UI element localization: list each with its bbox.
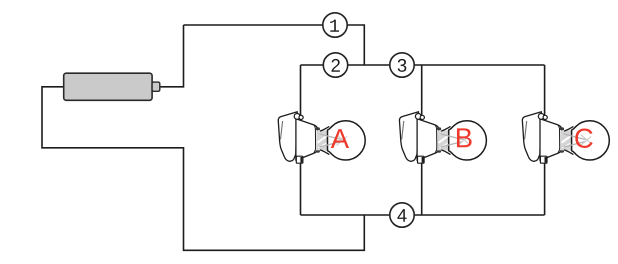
node 2 [323, 53, 347, 77]
lamp A [278, 112, 365, 163]
wire bottom rail through node 4 [301, 214, 545, 216]
lamp B [399, 112, 486, 163]
node 3 [390, 53, 414, 77]
lamp B label [457, 128, 472, 147]
wire lamp A branch vertical [300, 65, 302, 215]
battery BT1 body [64, 73, 152, 100]
wire battery negative loop: left lead, down, right, down, bottom run, up to node 4 rail [42, 87, 364, 251]
lamp A label [331, 129, 349, 148]
wire top run through node 1 down to middle rail junction [184, 25, 365, 65]
wire battery positive lead up to top wire [160, 25, 184, 87]
lamp C label [575, 128, 592, 147]
wire middle rail through nodes 2 and 3 [301, 64, 545, 66]
lamp C [522, 112, 609, 163]
wire lamp B branch vertical [421, 65, 423, 215]
node 4 [390, 203, 414, 227]
battery positive terminal nub [152, 82, 160, 91]
node 1 [323, 13, 347, 37]
wire lamp C branch vertical [544, 65, 546, 215]
